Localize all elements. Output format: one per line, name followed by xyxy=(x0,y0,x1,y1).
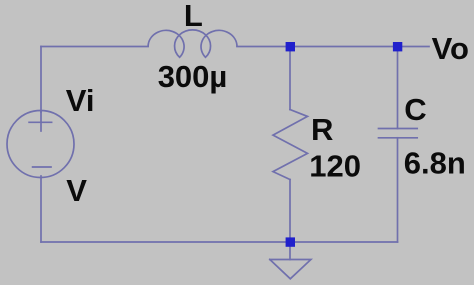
svg-text:L: L xyxy=(184,0,203,33)
wire: left vertical upper (top corner to source top pin) xyxy=(40,47,42,113)
wire: resistor bottom pin down to bottom rail xyxy=(289,180,291,243)
capacitor C top plate xyxy=(379,128,418,130)
voltage source V1 circle body xyxy=(7,111,74,178)
voltage source minus sign xyxy=(33,166,51,168)
svg-text:300µ: 300µ xyxy=(158,59,228,94)
wire: node N1 to node N2 xyxy=(290,46,398,48)
wire: top left horizontal (source to inductor) xyxy=(41,46,148,48)
wire: node N1 down to resistor top pin xyxy=(289,47,291,110)
wire: ground stub below node N3 xyxy=(289,242,291,260)
svg-text:120: 120 xyxy=(309,148,361,183)
svg-text:R: R xyxy=(311,112,333,147)
voltage source plus sign xyxy=(29,121,51,123)
svg-text:6.8n: 6.8n xyxy=(404,146,466,181)
wire: node N2 to Vo label stub xyxy=(398,46,430,48)
svg-text:C: C xyxy=(404,92,426,127)
resistor R zigzag xyxy=(273,110,308,180)
wire: capacitor bottom plate down to bottom rail xyxy=(397,138,399,242)
ground symbol xyxy=(270,260,311,279)
svg-text:Vo: Vo xyxy=(432,31,469,66)
inductor L coil (3 arcs) xyxy=(148,30,237,57)
node N2 junction square xyxy=(393,42,402,51)
wire: bottom ground rail xyxy=(41,241,398,243)
svg-text:Vi: Vi xyxy=(66,83,95,118)
node N3 junction square xyxy=(286,237,295,246)
capacitor C bottom plate xyxy=(379,137,418,139)
node N1 junction square xyxy=(286,42,295,51)
wire: node N2 down to capacitor top plate xyxy=(397,47,399,129)
wire: inductor to node N1 xyxy=(237,46,290,48)
wire: left vertical lower (source bottom pin to bottom rail) xyxy=(40,176,42,242)
svg-text:V: V xyxy=(66,173,87,208)
